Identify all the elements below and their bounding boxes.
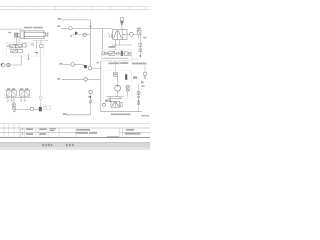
cluster C: valve box 1 arrow <box>110 52 115 55</box>
wire: valve bank drop to pump circle <box>13 96 15 103</box>
valve A4 <box>17 49 22 52</box>
power pack cluster C enclosure <box>102 50 132 61</box>
label: hose tag 3 <box>59 63 62 65</box>
toolbar icon group 2 <box>66 144 74 146</box>
filter F1 right of pump <box>126 86 129 91</box>
check valve on right riser <box>137 101 139 103</box>
coupling circle right of block B <box>129 32 133 36</box>
pilot head stack: arrow <box>121 23 124 25</box>
pump outlet dot <box>117 85 118 86</box>
wire: drop to pump blob <box>40 99 42 107</box>
tank stub T with arrow <box>28 54 30 59</box>
coupling circle K1 <box>69 27 72 30</box>
title block: vertical dividers left revision columns <box>4 124 123 138</box>
wire: K3 to elbow <box>75 63 84 65</box>
wire: drop from mid line to cluster C <box>102 28 104 49</box>
cluster C: valve box 1 <box>109 51 115 55</box>
coupling circle K2 <box>83 33 86 36</box>
label: port text Z <box>8 32 11 34</box>
faint coupling circle 1 <box>43 106 46 109</box>
bottom-right cluster D: solenoid boxes <box>105 100 108 102</box>
pilot head stack: circle <box>120 18 123 21</box>
pilot dashes cluster A right <box>26 44 32 46</box>
cluster D: coupling circle <box>102 103 105 106</box>
drain marks under cluster A <box>35 51 38 54</box>
wire: check valve branch line <box>73 34 91 36</box>
wire: stub x41 <box>40 41 42 45</box>
wire: short link <box>34 108 39 110</box>
wire: header y45 <box>112 44 132 46</box>
label: text under block B <box>108 46 115 48</box>
small mark 2 below accumulator <box>142 85 145 87</box>
wire: motor to pump shaft <box>117 76 119 85</box>
coupling circle K3 <box>71 63 75 67</box>
wire: suction line y114.8 left segment <box>63 114 67 116</box>
wire: K4 to power unit <box>92 67 101 69</box>
valve A3 arrow <box>11 50 16 52</box>
toolbar icon group 1 <box>42 144 52 147</box>
title block: line 3 <box>0 132 76 134</box>
right return riser <box>138 84 140 112</box>
marks on right riser <box>137 96 140 97</box>
title block: right drawing number texts <box>126 129 134 131</box>
dark pump/motor blob <box>39 107 42 112</box>
label: BEDIENUNG text <box>111 113 131 115</box>
pump circle P1 <box>115 85 121 91</box>
wire: block B to coupling <box>127 33 129 35</box>
hand pump circle HP <box>12 103 15 106</box>
gauge circle bottom row <box>30 107 33 110</box>
directional valve block B <box>113 30 127 40</box>
drain arrow on gauge drop <box>88 96 91 98</box>
hydraulic cylinder C1 mount block <box>15 33 21 37</box>
gauge on right riser <box>137 92 140 95</box>
valve cluster A enclosure <box>7 43 44 56</box>
small component on drain 1 <box>139 44 142 47</box>
pilot head stack: solenoid box <box>120 21 123 23</box>
valve A2 <box>16 44 22 47</box>
accumulator dark <box>125 74 127 80</box>
title block: revision row text marks <box>22 128 56 135</box>
wire: long pilot drop from cluster A <box>40 47 42 96</box>
hydraulic cylinder C1 barrel <box>20 31 45 39</box>
wire: off-page supply line to cylinder <box>0 28 23 30</box>
valve A6 <box>40 45 43 48</box>
label: tiny tag at suction line start <box>63 113 67 114</box>
valve bank subplate line <box>5 96 31 98</box>
cluster C: dark cartridge <box>121 51 123 56</box>
motor box mark <box>114 74 116 76</box>
pilot circle on drop <box>39 96 42 99</box>
wire: block B outlets down <box>114 40 116 46</box>
pressure gauge M2 <box>7 63 10 66</box>
small component on drain 2 <box>139 49 142 52</box>
wire: suction line y114.8 right segment <box>69 114 90 116</box>
small mark below accumulator <box>141 81 144 83</box>
shutoff on gauge drop <box>90 101 92 103</box>
label: small text right of drain <box>143 37 146 39</box>
cluster C: through wire <box>102 53 131 55</box>
wire: pump to tank <box>117 91 119 97</box>
wire: mid line continues right <box>72 27 113 29</box>
cluster C: lower dash line <box>102 59 128 61</box>
label: tiny note bottom-right corner <box>141 115 149 117</box>
sheet top border line 2 <box>0 9 150 11</box>
valve block B arrows <box>114 31 126 39</box>
label: small text 2x <box>70 35 72 36</box>
junction arrow on riser <box>90 26 92 29</box>
wire: bottom-left row line <box>16 108 31 110</box>
hydraulic cylinder C1 rod <box>45 32 48 36</box>
label: tiny note above title block <box>107 136 119 137</box>
label: hose tag 4 <box>57 78 60 80</box>
cluster C: right fitting <box>129 52 131 55</box>
directional valve block L <box>6 90 16 96</box>
wire: return line continues <box>88 78 101 80</box>
pilot dash line in cluster A <box>8 48 23 50</box>
cluster C: coupling circle 2 <box>116 52 119 55</box>
wire: power unit feed riser x100.8 <box>101 61 142 112</box>
accumulator circle <box>143 72 147 76</box>
viewer bottom toolbar <box>0 142 150 150</box>
valve A3 <box>11 49 17 52</box>
wire: return line y79.3 <box>62 78 84 80</box>
flow diamond D1 <box>83 77 88 81</box>
wire: mid line to coupling <box>61 27 69 29</box>
label: text right of accumulator <box>133 76 137 78</box>
pressure gauge M1 (left edge, half dark) <box>1 63 5 67</box>
accumulator branch: wire <box>144 66 146 72</box>
faint mark under hand pump <box>13 111 16 113</box>
gauge port circle a <box>8 45 10 47</box>
solenoid boxes on valve bank <box>7 88 28 90</box>
check valve CV1 <box>75 31 78 34</box>
cluster C: manifold base line <box>102 57 128 59</box>
coupling circle K4 on riser <box>88 67 91 70</box>
cluster D: directional valve <box>111 101 120 107</box>
component under hand pump <box>13 107 16 110</box>
check ball circle in cluster A <box>32 43 34 45</box>
wire: header drop to cluster C <box>114 45 116 50</box>
title block: line 2 <box>0 127 150 129</box>
wire: stack to valve block B <box>121 25 123 29</box>
cluster C: inlet fitting <box>102 52 104 55</box>
valve A1 (lowering brake valve) <box>10 44 16 47</box>
hydraulic cylinder C1 piston <box>23 31 25 38</box>
wire: cluster C tank link right <box>131 58 138 60</box>
faint coupling circle 2 <box>46 105 50 109</box>
tank symbol lines <box>107 97 124 99</box>
sheet top border line 1 <box>0 6 150 8</box>
wire: stub from dimension line down <box>35 41 37 49</box>
wire: cylinder to valve cluster A drop 1 <box>15 37 17 44</box>
wire: dimension line under rod <box>33 40 48 42</box>
spring marks under valve bank <box>7 96 26 102</box>
title block: revision table top line <box>0 123 150 125</box>
cluster C: coupling circle <box>105 52 108 55</box>
title block: bottom frame line <box>0 137 150 139</box>
elbow fitting dark <box>83 65 86 68</box>
label: cylinder name text <box>24 27 33 29</box>
wire: relief valve drain <box>139 34 141 55</box>
valve B spring left <box>108 33 112 37</box>
border zone ticks <box>19 7 146 10</box>
label: hose tag 2 <box>57 25 60 27</box>
wire: cylinder to valve cluster A drop 2 <box>18 37 20 45</box>
accumulator spring marks <box>144 76 146 79</box>
wire: gauge M3 drop <box>90 94 92 115</box>
pressure gauge M3 mid low <box>89 90 92 93</box>
label: HYDRAULIKAGGREGAT text <box>109 62 120 64</box>
wire: upper mid line P1 <box>61 19 90 21</box>
wire: cluster A down to gauges <box>10 55 21 65</box>
wire: cluster C to motor <box>115 61 117 73</box>
label: text above relief valve <box>137 28 141 30</box>
wire: riser x90.5 <box>90 20 92 67</box>
label: small text above K4 <box>96 62 99 63</box>
cluster D: right marks <box>120 102 122 106</box>
motor box M <box>113 73 117 76</box>
title block: centre title text two lines <box>77 129 91 131</box>
drain arrow end <box>139 55 141 57</box>
power unit enclosure <box>103 71 132 99</box>
bottom-left valve bank enclosure <box>5 89 31 97</box>
valve A5 right side <box>22 43 26 47</box>
relief valve RV1 <box>137 30 141 39</box>
wire: line to coupling K3 <box>63 63 71 65</box>
directional valve block R <box>19 90 29 96</box>
coupling ticks on suction line <box>67 114 69 116</box>
wire: filter to tank <box>127 91 129 97</box>
cluster C: valve box 2 <box>124 52 128 56</box>
label: hose tag 1 <box>58 18 61 20</box>
